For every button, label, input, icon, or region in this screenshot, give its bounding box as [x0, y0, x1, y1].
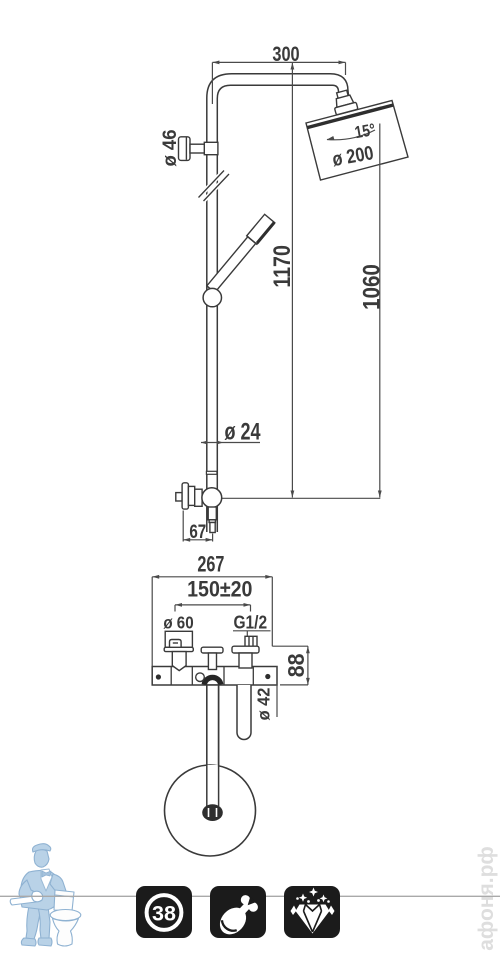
dimension 150+-20	[175, 603, 251, 612]
mixer body bar	[152, 667, 277, 686]
dimension o24 leader	[201, 442, 260, 444]
shirt	[41, 869, 52, 891]
valve circle	[202, 488, 222, 508]
svg-text:ø 60: ø 60	[163, 613, 193, 632]
right arm onto tank	[50, 874, 66, 893]
svg-text:ø 46: ø 46	[160, 129, 182, 166]
svg-text:1170: 1170	[268, 245, 296, 288]
horizontal reference centerline at valve	[212, 497, 380, 499]
svg-text:88: 88	[283, 654, 309, 678]
icon diamond	[284, 886, 340, 938]
left arm + elbow out	[19, 880, 39, 902]
screw dots	[156, 674, 161, 679]
right port (G1/2)	[232, 636, 259, 668]
baseline gray line	[0, 895, 500, 897]
diverter dark elbow	[204, 677, 221, 684]
icon 38C thermostat	[136, 886, 192, 938]
dimension 267	[152, 575, 272, 667]
small hole	[196, 673, 205, 682]
wall bracket upper (o46)	[179, 137, 218, 161]
svg-text:300: 300	[272, 43, 299, 67]
hose ring circle	[165, 765, 256, 856]
pipe over circle	[208, 765, 218, 810]
svg-text:67: 67	[189, 520, 206, 542]
pipe collar joint	[206, 471, 217, 474]
bow tie	[42, 871, 51, 877]
svg-text:ø 42: ø 42	[254, 688, 274, 721]
dimension line 1170 (vertical)	[291, 63, 295, 498]
icon drumstick	[210, 886, 266, 940]
head	[34, 850, 49, 868]
15 degree arc	[327, 130, 375, 140]
wrench	[10, 891, 43, 905]
dimension 88 bracket	[272, 646, 310, 685]
toilet pedestal	[53, 919, 79, 947]
dark nut at ring center	[202, 804, 223, 821]
svg-text:афоня.рф: афоня.рф	[475, 846, 498, 951]
cap	[33, 844, 51, 852]
svg-text:38: 38	[152, 902, 176, 926]
center diverter stem	[201, 647, 223, 669]
svg-text:150±20: 150±20	[187, 578, 252, 602]
toilet tank	[54, 890, 74, 911]
wall bracket lower with valve	[176, 483, 202, 509]
hose outlet below valve	[208, 507, 216, 533]
plumber legs	[19, 844, 66, 946]
dimension 67	[183, 511, 212, 542]
svg-text:G1/2: G1/2	[233, 612, 267, 633]
svg-text:1060: 1060	[358, 264, 385, 310]
dimension line 1060 (vertical, over head)	[378, 124, 382, 498]
svg-text:267: 267	[197, 553, 224, 577]
ICONS	[136, 886, 340, 940]
torso / jacket	[20, 870, 59, 910]
hand shower wand	[206, 214, 275, 293]
toilet bowl rim	[50, 910, 81, 921]
right body edge extension	[276, 666, 278, 717]
right handle capsule o42	[237, 685, 251, 740]
slider circle	[203, 288, 221, 306]
svg-text:15°: 15°	[353, 121, 377, 143]
shower head (tilted)	[306, 101, 408, 181]
left thermostat handle	[164, 631, 193, 670]
dimension 300	[212, 61, 345, 105]
head connector nut	[331, 89, 358, 115]
pipe break symbol	[199, 171, 230, 202]
riser pipe with top elbow	[207, 74, 349, 532]
WATERMARK-GROUP	[10, 844, 81, 946]
site text vertical	[475, 846, 498, 951]
svg-text:ø 24: ø 24	[224, 419, 260, 445]
down pipe to hose ring	[207, 685, 219, 810]
